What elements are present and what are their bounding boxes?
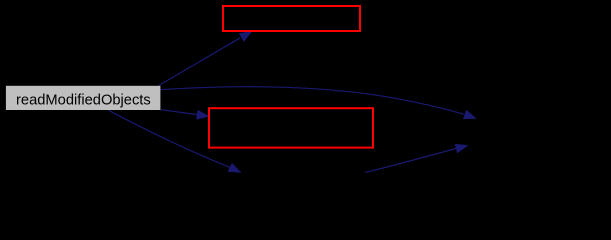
svg-text:readModifiedObjects: readModifiedObjects bbox=[16, 92, 151, 108]
